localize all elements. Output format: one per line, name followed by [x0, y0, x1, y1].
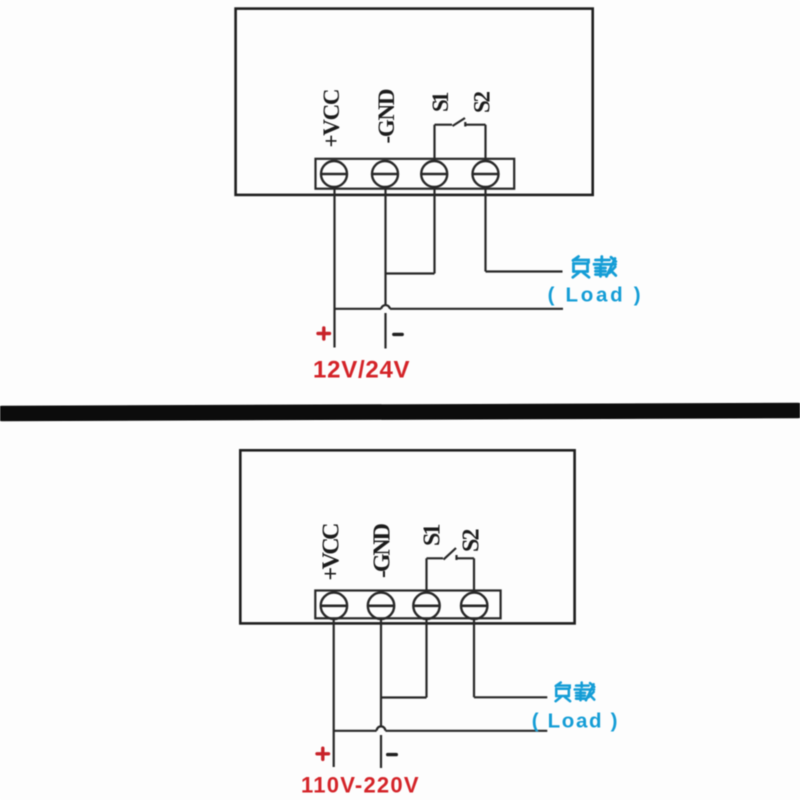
svg-text:S1: S1 [420, 524, 446, 547]
svg-text:-GND: -GND [374, 89, 399, 144]
svg-text:12V/24V: 12V/24V [313, 356, 410, 383]
svg-text:110V-220V: 110V-220V [301, 773, 419, 798]
svg-text:-GND: -GND [370, 523, 396, 578]
svg-text:S2: S2 [470, 91, 495, 113]
svg-text:S1: S1 [428, 92, 453, 113]
svg-text:+VCC: +VCC [319, 523, 345, 581]
svg-text:S2: S2 [459, 529, 485, 553]
svg-text:+VCC: +VCC [319, 89, 344, 148]
